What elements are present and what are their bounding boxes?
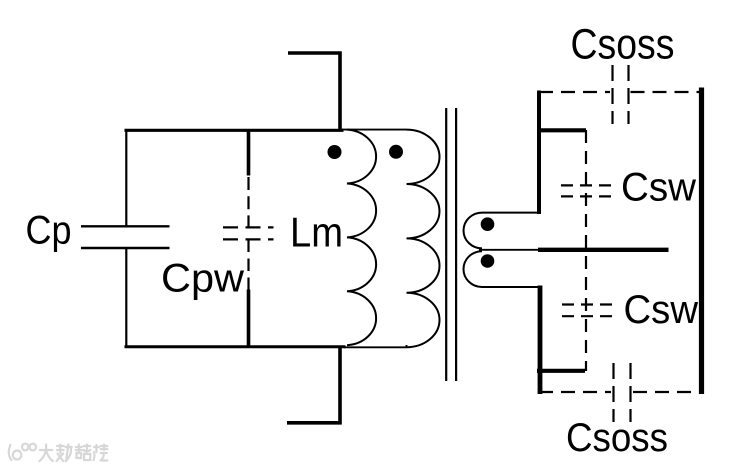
svg-text:Csw: Csw bbox=[624, 288, 699, 332]
wire: primary loop left vertical (lower half, from Cp) bbox=[125, 248, 127, 348]
wire: Cpw branch dashed segment (upper) bbox=[247, 177, 249, 227]
inductor Lm (magnetizing winding, 4 bumps) bbox=[347, 130, 376, 346]
wire: primary bottom input terminal (L-stub) bbox=[287, 346, 340, 423]
wire: secondary top terminal vertical bbox=[537, 91, 541, 215]
wire: right output rail bbox=[699, 88, 704, 395]
wire: top parasitic net (dashed, left of Csoss) bbox=[539, 91, 610, 93]
wire: secondary bottom stub to Csw branch bbox=[537, 369, 585, 373]
wire: secondary top stub to Csw branch bbox=[537, 128, 586, 132]
svg-text:Csoss: Csoss bbox=[571, 22, 675, 69]
capacitor Csoss bottom (dashed plates) bbox=[614, 363, 631, 422]
wire: link from primary winding to bottom rail bbox=[344, 345, 407, 348]
capacitor Csoss top (dashed plates) bbox=[613, 65, 629, 124]
svg-text:Cp: Cp bbox=[26, 209, 72, 253]
polarity dot (secondary lower) bbox=[481, 254, 495, 268]
capacitor Csw bottom (dashed plates) bbox=[559, 305, 613, 317]
transformer secondary lower half winding bbox=[463, 251, 539, 287]
polarity dot (primary winding) bbox=[389, 145, 403, 159]
svg-text:Csoss: Csoss bbox=[566, 416, 668, 460]
wire: secondary bottom terminal vertical bbox=[538, 286, 543, 395]
transformer core (two bars) bbox=[446, 108, 456, 381]
wire: Cpw branch dashed segment (lower) bbox=[247, 240, 249, 290]
transformer primary winding (4 bumps) bbox=[407, 130, 440, 348]
wire: secondary centre-tap lead-in bbox=[479, 249, 542, 251]
wire: Cpw branch solid segment (top) bbox=[247, 129, 251, 176]
capacitor Cp (plates) bbox=[81, 226, 170, 248]
wire: Cpw branch solid segment (bottom) bbox=[247, 290, 251, 348]
transformer secondary upper half winding bbox=[464, 213, 540, 249]
capacitor Csw top (dashed plates) bbox=[558, 185, 611, 196]
wire: link from top rail to primary winding bbox=[342, 129, 407, 131]
polarity dot (secondary upper) bbox=[481, 217, 495, 231]
svg-text:Cpw: Cpw bbox=[161, 257, 244, 301]
polarity dot (Lm winding) bbox=[328, 145, 342, 159]
wire: primary loop bottom rail bbox=[125, 345, 346, 348]
capacitor Cpw (dashed plates) bbox=[223, 226, 274, 228]
wire: top parasitic net (dashed, right of Csoss) bbox=[631, 91, 702, 93]
wire: bottom parasitic net (dashed, right of Csoss) bbox=[633, 391, 702, 393]
wire: primary loop left vertical (upper half, to Cp) bbox=[125, 129, 127, 226]
svg-text:Lm: Lm bbox=[290, 209, 343, 256]
wire: Csw branch vertical (dashed) bbox=[585, 130, 587, 371]
wire: bottom parasitic net (dashed, left of Csoss) bbox=[539, 391, 611, 393]
wire: secondary centre-tap output (thick) bbox=[538, 248, 669, 252]
watermark logo bbox=[9, 444, 108, 461]
wire: primary loop top rail bbox=[125, 129, 344, 132]
wire: primary top input terminal (L-stub) bbox=[288, 53, 340, 130]
svg-text:Csw: Csw bbox=[621, 166, 696, 210]
